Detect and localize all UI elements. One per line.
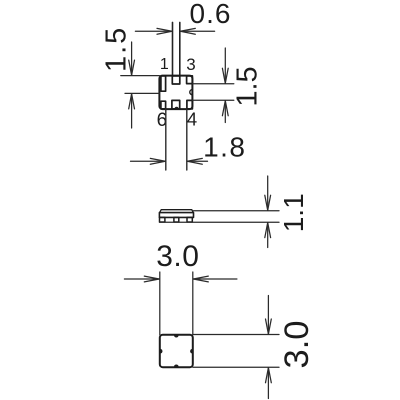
svg-text:4: 4: [187, 109, 197, 130]
bottom view right edge notch: [190, 349, 192, 354]
svg-text:0.6: 0.6: [190, 0, 232, 29]
bottom view left edge notch: [160, 349, 162, 354]
pin 1 pad: [161, 76, 166, 91]
3.0 vertical lower arrow (up): [266, 368, 272, 399]
package outline top view: [159, 76, 192, 110]
1.8 dimension right arrow: [187, 158, 207, 164]
3.0 horizontal dimension left arrow: [124, 276, 159, 282]
side view foot 3: [187, 217, 192, 222]
3.0 vertical extension right: [192, 272, 194, 335]
svg-text:1.5: 1.5: [100, 26, 132, 72]
svg-text:1: 1: [160, 56, 169, 73]
pin 3 pad: [187, 76, 193, 84]
svg-text:1.5: 1.5: [232, 66, 264, 106]
pin 6 pad: [161, 101, 166, 109]
svg-text:3.0: 3.0: [278, 321, 316, 369]
bottom view bottom edge notch: [174, 364, 179, 366]
left 1.5 upper arrow (down): [129, 42, 135, 75]
right edge notch: [190, 90, 193, 95]
pin 4 pad: [187, 100, 193, 109]
left 1.5 dimension line lower: [125, 92, 159, 94]
right 1.5 lower arrow (up): [222, 101, 228, 123]
side view body: [159, 213, 193, 218]
left 1.5 lower arrow (up): [129, 94, 135, 128]
bottom edge notch (top view): [174, 107, 178, 109]
lead line right (0.6 extension): [179, 22, 181, 76]
right 1.5 upper arrow (down): [222, 48, 228, 83]
side view foot 1: [160, 217, 165, 222]
bottom view top edge notch: [174, 335, 179, 337]
1.8 extension line right: [186, 109, 188, 170]
1.1 upper arrow (down): [265, 176, 271, 210]
3.0 vertical extension left: [159, 272, 161, 335]
lead line left (0.6 extension): [172, 22, 174, 76]
left 1.5 dimension line upper: [121, 75, 160, 77]
3.0 horizontal dimension right arrow: [193, 276, 237, 282]
dimension 0.6 right arrow: [180, 28, 214, 34]
dimension 0.6 left arrow: [135, 28, 172, 34]
pin 2 pad (top center): [172, 76, 180, 84]
right 1.5 dimension line lower: [192, 99, 233, 101]
right 1.5 dimension line upper: [192, 83, 233, 85]
side view lid top: [160, 210, 194, 213]
1.1 extension line top: [194, 210, 280, 212]
svg-text:1.1: 1.1: [278, 193, 309, 232]
3.0 right extension bottom: [193, 366, 279, 368]
3.0 right extension top: [193, 334, 279, 336]
svg-text:3: 3: [186, 55, 195, 74]
side view foot 2: [174, 217, 179, 222]
package outline bottom view: [160, 335, 193, 367]
1.1 extension line bottom: [160, 221, 280, 223]
svg-text:1.8: 1.8: [203, 131, 246, 162]
1.1 lower arrow (up): [265, 223, 271, 248]
svg-text:3.0: 3.0: [156, 240, 199, 273]
pin 5 pad (bottom center): [172, 100, 180, 109]
1.8 dimension left arrow: [131, 158, 166, 164]
3.0 vertical upper arrow (down): [266, 296, 272, 335]
1.8 extension line left: [165, 109, 167, 170]
